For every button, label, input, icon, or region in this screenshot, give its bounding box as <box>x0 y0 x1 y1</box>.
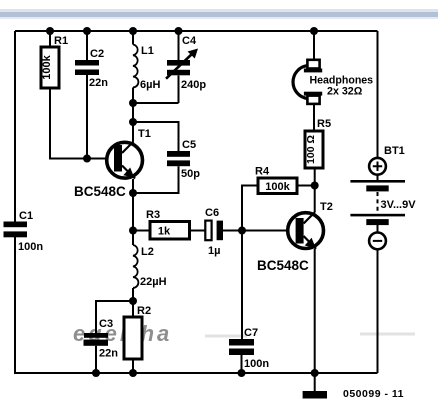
svg-text:050099 - 11: 050099 - 11 <box>343 388 404 400</box>
wire right frame lower <box>377 250 379 374</box>
wire C3 bottom <box>95 346 97 373</box>
node T1 base <box>83 155 91 163</box>
svg-text:C6: C6 <box>205 207 219 219</box>
wire ground stub <box>314 373 316 391</box>
wire C2 bottom drop <box>86 75 88 159</box>
svg-text:R1: R1 <box>54 35 68 47</box>
svg-text:6µH: 6µH <box>140 79 160 91</box>
wire R5 top to headphones <box>313 104 315 131</box>
node L1 bottom <box>129 99 137 107</box>
svg-text:50p: 50p <box>181 168 200 180</box>
wire L2 bottom drop <box>132 288 134 317</box>
svg-text:R4: R4 <box>255 166 270 178</box>
wire C6 to T2 base <box>223 230 296 232</box>
wire C7 bottom <box>241 355 243 373</box>
resistor R5 <box>305 118 331 168</box>
capacitor C6 <box>205 207 223 257</box>
top blue bar <box>0 9 438 12</box>
svg-text:22n: 22n <box>89 77 108 89</box>
wire R1 top drop <box>49 31 51 47</box>
svg-text:L1: L1 <box>141 45 154 57</box>
svg-text:T1: T1 <box>138 128 151 140</box>
wire C5 bottom to emitter <box>133 166 179 193</box>
watermark dashes <box>205 334 415 336</box>
wire bottom frame <box>14 372 378 374</box>
svg-text:BC548C: BC548C <box>257 258 309 273</box>
wire T1 collector <box>132 122 134 142</box>
node T1 emitter <box>129 189 137 197</box>
variable capacitor C4 <box>166 35 206 91</box>
svg-text:R3: R3 <box>146 209 160 221</box>
wire T2 collector <box>314 186 316 213</box>
svg-text:100k: 100k <box>265 181 290 193</box>
node T2 base <box>238 227 246 235</box>
capacitor C7 <box>229 327 269 370</box>
ground <box>303 391 327 399</box>
wire right frame upper <box>377 31 379 158</box>
svg-text:L2: L2 <box>141 246 154 258</box>
transistor T1 <box>74 128 151 199</box>
capacitor C5 <box>167 139 200 180</box>
wire C2 top drop <box>86 31 88 60</box>
resistor R1 <box>41 35 68 88</box>
inductor L1 <box>133 45 160 92</box>
svg-text:1k: 1k <box>158 226 171 238</box>
wire R3 row left <box>133 230 150 232</box>
wire battery top gap <box>377 175 379 180</box>
wire T1 emitter drop <box>132 179 134 231</box>
wire L1 bottom node row <box>133 88 179 123</box>
svg-text:C2: C2 <box>90 48 104 60</box>
wire top frame <box>15 30 378 32</box>
svg-text:R5: R5 <box>317 118 331 130</box>
wire C7 drop <box>241 231 243 340</box>
wire C4 top drop <box>178 31 180 60</box>
resistor R4 <box>255 166 297 194</box>
node C2 top <box>83 27 91 35</box>
node C7 bottom <box>238 369 246 377</box>
wire R5 bottom <box>314 168 316 186</box>
svg-text:100n: 100n <box>18 241 43 253</box>
wire R2 bottom <box>132 359 134 373</box>
wire C5 top row <box>133 122 179 151</box>
capacitor C2 <box>75 48 108 89</box>
svg-text:T2: T2 <box>320 201 333 213</box>
svg-text:1µ: 1µ <box>208 245 220 257</box>
svg-text:100k: 100k <box>41 54 53 79</box>
svg-text:100 Ω: 100 Ω <box>305 135 317 164</box>
node C5 top <box>129 118 137 126</box>
wire R4 to R5 node <box>297 185 315 187</box>
svg-text:C4: C4 <box>182 35 197 47</box>
resistor R3 <box>146 209 190 239</box>
svg-text:R2: R2 <box>137 305 151 317</box>
node R3 left <box>129 227 137 235</box>
wire R1 bottom to base <box>50 88 114 159</box>
wire R3 to C6 <box>190 230 206 232</box>
wire C4 bottom drop <box>178 76 180 104</box>
wire L2 top drop <box>132 231 134 246</box>
svg-text:BT1: BT1 <box>384 145 405 157</box>
svg-text:240p: 240p <box>181 79 206 91</box>
node R1 top <box>46 27 54 35</box>
node R2 bottom <box>129 369 137 377</box>
svg-text:3V...9V: 3V...9V <box>381 199 417 211</box>
svg-text:22n: 22n <box>99 348 118 360</box>
node C3 bottom <box>92 369 100 377</box>
node headphones top <box>310 27 318 35</box>
wire battery mid-bottom gap <box>377 225 379 232</box>
transistor T2 <box>257 201 333 273</box>
svg-text:C1: C1 <box>19 210 33 222</box>
battery BT1 <box>350 145 416 249</box>
node L1 top <box>129 27 137 35</box>
svg-text:2x 32Ω: 2x 32Ω <box>327 86 363 98</box>
svg-text:C5: C5 <box>182 139 196 151</box>
node T2 emitter bottom <box>311 369 319 377</box>
svg-text:C7: C7 <box>244 327 258 339</box>
node L2 bottom <box>129 297 137 305</box>
node C4 top <box>175 27 183 35</box>
wire R4 branch up <box>242 186 258 231</box>
svg-text:22µH: 22µH <box>140 276 167 288</box>
node R5 bottom <box>311 182 319 190</box>
wire headphones top drop <box>313 31 315 60</box>
capacitor C1 <box>4 210 44 253</box>
inductor L2 <box>133 245 167 288</box>
svg-text:100n: 100n <box>244 358 269 370</box>
wire T2 emitter drop <box>314 249 316 373</box>
capacitor C3 <box>84 318 119 360</box>
svg-text:C3: C3 <box>99 318 113 330</box>
svg-text:BC548C: BC548C <box>74 184 126 199</box>
resistor R2 <box>124 305 151 359</box>
wire L1 top drop <box>132 31 134 45</box>
wire left frame upper <box>14 31 16 222</box>
headphones <box>293 60 373 104</box>
wire left frame lower <box>14 237 16 374</box>
wire node to C3 <box>96 301 133 333</box>
